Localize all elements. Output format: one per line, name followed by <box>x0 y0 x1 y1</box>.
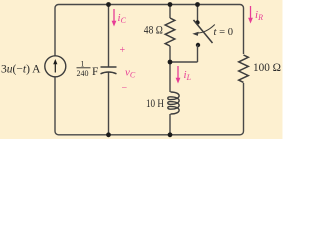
svg-text:100 Ω: 100 Ω <box>253 62 281 74</box>
capacitor value label 1/240 F <box>77 60 99 79</box>
junction dot: 48-ohm / switch / inductor node <box>168 60 173 65</box>
wire: junction to inductor <box>169 62 171 92</box>
current source circle mask <box>45 56 66 77</box>
current source arrow <box>54 62 56 73</box>
wire: lower contact down to jog <box>197 45 199 62</box>
junction dot: top rail / 48-ohm branch <box>168 2 173 7</box>
current iR arrow <box>248 6 253 24</box>
svg-text:3u(−t) A: 3u(−t) A <box>1 63 41 75</box>
svg-text:48 Ω: 48 Ω <box>144 25 163 37</box>
junction dot: top rail / switch branch <box>195 2 200 7</box>
capacitor branch wire (lower segment) <box>108 73 110 135</box>
switch blade (open, swung right) <box>194 20 213 43</box>
figure background panel <box>0 0 283 139</box>
current iL arrow <box>176 66 181 84</box>
capacitor C = 1/240 F (plates) <box>101 67 117 74</box>
wire: resistor bottom to junction node <box>169 46 171 62</box>
switch motion arrow (arc with arrowhead, closing at t=0) <box>196 25 215 34</box>
resistor 48 ohm (zigzag) <box>165 18 175 46</box>
current iC arrow <box>112 9 117 27</box>
wire: jog from switch branch left to junction node <box>170 61 198 63</box>
inductor 10 H (coil) <box>168 92 179 114</box>
switch branch wire: top rail to upper contact <box>197 5 199 23</box>
junction dot: bottom rail / capacitor <box>106 132 111 137</box>
svg-text:10 H: 10 H <box>146 98 164 110</box>
svg-text:t = 0: t = 0 <box>214 26 234 38</box>
resistor 100 ohm (zigzag, right rail) : blank rail then zigzag <box>236 54 251 83</box>
wire: inductor bottom to bottom rail <box>169 114 171 135</box>
svg-text:240: 240 <box>77 69 89 78</box>
junction dot: bottom rail / inductor <box>168 132 173 137</box>
svg-text:−: − <box>122 83 128 94</box>
switch lower contact <box>196 43 200 47</box>
junction dot: top rail / capacitor <box>106 2 111 7</box>
svg-text:1: 1 <box>81 60 85 69</box>
wire outer loop (top, left, bottom, right rails) <box>55 5 244 135</box>
capacitor branch wire (upper segment) <box>108 5 110 68</box>
svg-text:+: + <box>120 45 126 56</box>
svg-text:F: F <box>92 66 98 78</box>
switch upper contact <box>195 20 199 24</box>
48-ohm / inductor branch wire: top rail to resistor <box>169 5 171 19</box>
